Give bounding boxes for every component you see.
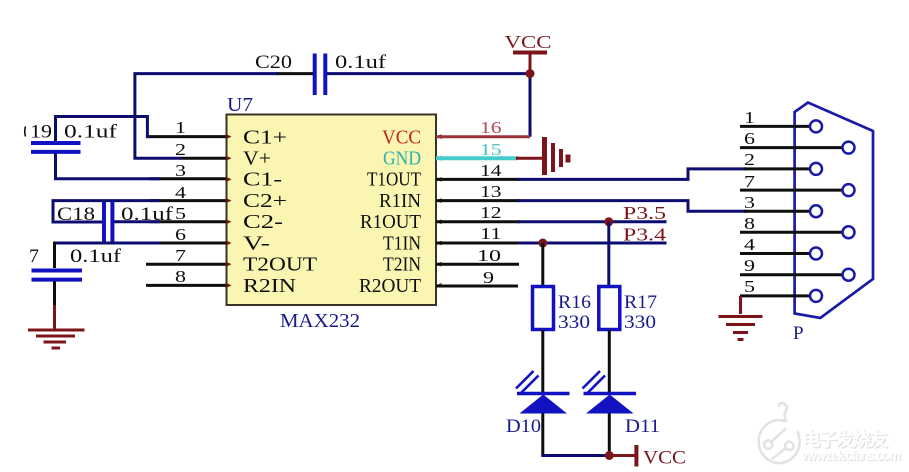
wire C20 left lead xyxy=(276,72,313,75)
svg-text:0.1uf: 0.1uf xyxy=(335,52,387,73)
svg-text:19: 19 xyxy=(30,122,52,143)
wire to VCC bottom xyxy=(609,454,635,457)
wire P3.4 node down to R16 xyxy=(541,243,544,286)
wire D11 to bottom rail xyxy=(608,414,611,456)
wire DB9 pin5 to ground xyxy=(739,296,742,314)
DB9 pin 9 xyxy=(740,273,842,276)
wire pin12 R1OUT / net P3.5 xyxy=(436,220,520,223)
svg-text:7: 7 xyxy=(744,172,756,191)
svg-text:T1IN: T1IN xyxy=(383,233,421,255)
LED D11 xyxy=(583,371,637,414)
svg-text:15: 15 xyxy=(480,140,502,159)
resistor R16 xyxy=(533,287,554,330)
svg-text:2: 2 xyxy=(744,150,755,169)
wire pin2 V+ xyxy=(180,157,227,160)
wire pin16 VCC (red) xyxy=(436,135,530,138)
wire pin9 R2OUT stub xyxy=(436,285,518,288)
svg-text:VCC: VCC xyxy=(382,127,421,149)
wire pin11 T1IN / net P3.4 xyxy=(436,242,520,245)
wire pin3 C1- xyxy=(150,177,227,180)
wire C17 bottom lead to ground xyxy=(53,281,56,307)
svg-text:0.1uf: 0.1uf xyxy=(64,122,118,143)
DB9 connector P shell xyxy=(795,103,873,318)
svg-text:T2IN: T2IN xyxy=(383,254,421,276)
svg-text:R2IN: R2IN xyxy=(243,275,296,297)
svg-text:U7: U7 xyxy=(227,94,253,116)
IC pin connection tips xyxy=(226,134,442,288)
DB9 pin 1 xyxy=(740,125,810,128)
wire pin8 R2IN stub xyxy=(146,284,227,287)
wire C19 bottom lead to pin3 xyxy=(56,153,161,179)
wire R16 to D10 xyxy=(541,330,544,394)
svg-text:D11: D11 xyxy=(625,416,660,437)
svg-text:11: 11 xyxy=(480,224,502,243)
svg-text:3: 3 xyxy=(744,193,755,212)
svg-text:5: 5 xyxy=(175,204,186,223)
wire P3.5 node down to R17 xyxy=(607,222,610,286)
junction dot P3.4 xyxy=(538,239,547,248)
svg-text:3: 3 xyxy=(175,161,186,180)
svg-text:9: 9 xyxy=(744,256,755,275)
svg-text:MAX232: MAX232 xyxy=(280,310,360,332)
resistor R17 xyxy=(599,287,620,330)
svg-text:10: 10 xyxy=(477,246,501,265)
capacitor C20 plates xyxy=(313,54,317,96)
svg-text:13: 13 xyxy=(480,182,502,201)
svg-text:V+: V+ xyxy=(243,148,271,170)
ground symbol left xyxy=(28,330,85,348)
svg-text:VCC: VCC xyxy=(505,32,552,52)
svg-text:5: 5 xyxy=(744,277,755,296)
svg-text:P: P xyxy=(793,323,804,344)
svg-text:GND: GND xyxy=(383,148,421,170)
svg-text:V-: V- xyxy=(243,233,270,255)
DB9 pin 6 xyxy=(740,146,842,149)
wire D10 to bottom rail xyxy=(541,414,544,456)
svg-text:T2OUT: T2OUT xyxy=(243,254,317,276)
wire pin15 to ground (maroon) xyxy=(516,157,544,160)
svg-text:C2-: C2- xyxy=(243,211,283,233)
capacitor C17 plates xyxy=(32,269,83,273)
svg-text:www.elecfans.com: www.elecfans.com xyxy=(801,448,901,463)
DB9 pin 8 xyxy=(740,231,842,234)
junction dot VCC node xyxy=(526,69,535,78)
svg-text:7: 7 xyxy=(29,246,39,267)
wire pin1 C1+ xyxy=(147,135,226,138)
ground symbol right (rotated) xyxy=(545,137,569,175)
svg-text:T1OUT: T1OUT xyxy=(367,169,421,191)
wire pin10 T2IN stub xyxy=(436,263,519,266)
svg-text:330: 330 xyxy=(558,312,590,333)
IC U7 MAX232 body xyxy=(227,115,437,306)
svg-text:1: 1 xyxy=(744,108,755,127)
junction dot bottom rail xyxy=(605,451,614,460)
svg-text:12: 12 xyxy=(480,203,502,222)
svg-text:330: 330 xyxy=(624,312,656,333)
wire pin5 C2- xyxy=(150,220,227,223)
LED D10 xyxy=(516,371,570,414)
svg-text:C1-: C1- xyxy=(243,169,282,191)
wire pin13 R1IN to DB9 pin3 xyxy=(436,199,520,202)
junction dot P3.5 xyxy=(604,217,613,226)
wire R17 to D11 xyxy=(608,330,611,394)
DB9 pin 5 xyxy=(740,294,810,297)
wire bottom rail xyxy=(541,454,609,457)
svg-text:R17: R17 xyxy=(624,292,657,313)
svg-text:0.1uf: 0.1uf xyxy=(70,246,122,267)
VCC symbol bottom (rotated) xyxy=(634,445,638,467)
watermark logo xyxy=(759,403,800,463)
svg-text:4: 4 xyxy=(175,183,187,202)
svg-text:7: 7 xyxy=(175,246,187,265)
svg-text:2: 2 xyxy=(175,140,186,159)
svg-text:6: 6 xyxy=(744,129,755,148)
svg-text:VCC: VCC xyxy=(643,448,686,469)
capacitor C19 plates xyxy=(31,141,81,145)
wire C20 right lead to VCC node xyxy=(327,74,530,137)
svg-text:4: 4 xyxy=(744,235,756,254)
svg-text:C20: C20 xyxy=(255,52,292,73)
wire pin4 C2+ xyxy=(150,199,227,202)
svg-text:C1+: C1+ xyxy=(243,127,287,149)
svg-text:8: 8 xyxy=(175,267,186,286)
wire C18 left lead from pin4 xyxy=(53,201,160,222)
svg-text:C2+: C2+ xyxy=(243,190,287,212)
svg-text:R16: R16 xyxy=(558,292,591,313)
wire C18 right lead pin5 xyxy=(114,220,160,223)
wire pin15 GND (cyan) xyxy=(436,156,518,160)
svg-text:R2OUT: R2OUT xyxy=(359,275,421,297)
wire C19 top lead to pin1 xyxy=(56,117,151,142)
svg-text:P3.5: P3.5 xyxy=(623,203,666,223)
capacitor C18 plates xyxy=(102,202,106,244)
wire pin7 T2OUT stub xyxy=(146,263,227,266)
wire pin6 V- xyxy=(150,242,227,245)
wire pin14 T1OUT to DB9 pin2 xyxy=(436,178,520,181)
capacitor C19 label (clipped) xyxy=(24,127,27,137)
DB9 pin 4 xyxy=(740,252,810,255)
DB9 pin 3 xyxy=(744,210,810,213)
svg-text:D10: D10 xyxy=(506,416,541,437)
ground symbol DB9 xyxy=(719,317,763,340)
svg-text:6: 6 xyxy=(175,225,186,244)
svg-text:16: 16 xyxy=(480,118,502,137)
svg-text:1: 1 xyxy=(175,118,186,137)
svg-text:14: 14 xyxy=(480,161,502,180)
DB9 pin 2 xyxy=(744,167,810,170)
svg-text:P3.4: P3.4 xyxy=(623,225,666,245)
VCC symbol top xyxy=(505,32,552,72)
svg-text:R1OUT: R1OUT xyxy=(360,211,421,233)
svg-text:8: 8 xyxy=(744,214,755,233)
DB9 pin 7 xyxy=(740,189,842,192)
wire C17 top lead from pin6 xyxy=(55,242,161,245)
svg-text:9: 9 xyxy=(483,268,494,287)
svg-text:R1IN: R1IN xyxy=(379,190,421,212)
